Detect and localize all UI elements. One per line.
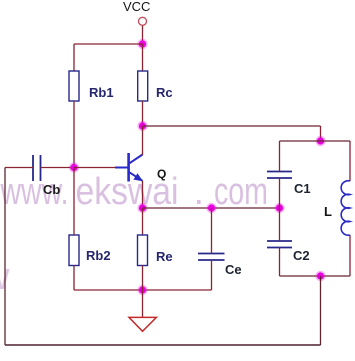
wire (211, 208, 213, 254)
wire (142, 290, 144, 317)
inductor L (324, 141, 350, 276)
svg-text:com: com (214, 171, 268, 213)
node base (69, 162, 79, 172)
capacitor C1 (267, 172, 311, 197)
node ground junction (137, 285, 147, 295)
svg-text:Cb: Cb (43, 182, 60, 197)
resistor Re (138, 235, 173, 266)
resistor Rb1 (69, 71, 114, 101)
wire bottom rail (5, 344, 321, 346)
wire (142, 208, 144, 235)
wire (5, 167, 33, 169)
transistor Q (115, 153, 166, 182)
wire (279, 208, 281, 241)
power terminal VCC (139, 17, 147, 25)
wire (142, 126, 144, 155)
svg-text:VCC: VCC (123, 0, 150, 14)
wire (142, 181, 144, 208)
wire (142, 26, 144, 45)
wire (41, 167, 75, 169)
svg-text:Re: Re (156, 249, 173, 264)
wire (279, 141, 281, 172)
svg-text:Rb1: Rb1 (89, 85, 114, 100)
wire (142, 101, 144, 126)
svg-text:C2: C2 (293, 248, 310, 263)
wire (143, 125, 321, 127)
wire (73, 101, 75, 168)
svg-text:L: L (324, 204, 332, 219)
wire (73, 168, 75, 236)
wire (74, 167, 115, 169)
wire (279, 178, 281, 208)
wire (211, 260, 213, 290)
resistor Rb2 (69, 235, 111, 266)
capacitor C2 (267, 241, 310, 263)
wire (74, 43, 143, 45)
wire left rail (4, 168, 6, 346)
node VCC junction (137, 39, 147, 49)
wire (142, 44, 144, 71)
wire (73, 44, 75, 71)
wire (280, 275, 351, 277)
wire (73, 266, 75, 291)
resistor Rc (138, 71, 173, 101)
ground (129, 317, 156, 331)
capacitor Ce (198, 254, 242, 278)
node tank bottom (315, 271, 325, 281)
watermark www.ekswai.com (0, 171, 268, 298)
node emitter (137, 203, 147, 213)
node collector (137, 121, 147, 131)
svg-text:C1: C1 (294, 181, 311, 196)
capacitor Cb (33, 155, 60, 197)
wire (279, 248, 281, 277)
svg-text:Rc: Rc (156, 85, 173, 100)
wire (280, 140, 351, 142)
svg-text:Q: Q (157, 167, 166, 181)
node tank top (315, 136, 325, 146)
wire (143, 207, 280, 209)
node C1-C2 junction (274, 203, 284, 213)
node Ce tap (206, 203, 216, 213)
wire (74, 289, 212, 291)
svg-text:Rb2: Rb2 (86, 248, 111, 263)
wire (142, 266, 144, 291)
svg-text:.: . (194, 171, 205, 213)
wire (320, 276, 322, 345)
wire (320, 126, 322, 141)
svg-text:Ce: Ce (225, 262, 242, 277)
